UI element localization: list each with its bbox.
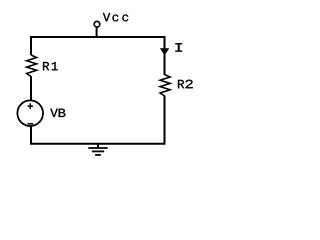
node Vcc open circle [94,21,100,27]
resistor R1 [27,55,37,77]
label R2 [178,80,184,88]
label I [175,43,182,51]
ground bar 1 [88,147,107,149]
voltage source VB [17,100,43,126]
label R1 [43,62,49,70]
wire left vertical (top rail to R1) [30,36,32,55]
node Vcc terminal stub [96,27,98,37]
wire top rail [30,36,166,38]
wire bottom rail [30,143,166,145]
label Vcc [103,13,110,21]
current arrow I [160,48,169,55]
ground bar 3 [95,154,101,156]
wire right vertical (top rail to R2) [164,36,166,75]
wire R1 to VB [30,76,32,100]
wire VB to bottom rail [30,126,32,144]
ground stub [97,144,99,148]
resistor R2 [160,75,170,97]
plus sign [28,103,34,109]
ground [88,144,107,155]
label VB [50,109,57,117]
minus sign [28,123,34,125]
wire R2 to bottom rail [164,96,166,145]
ground bar 2 [92,150,104,152]
